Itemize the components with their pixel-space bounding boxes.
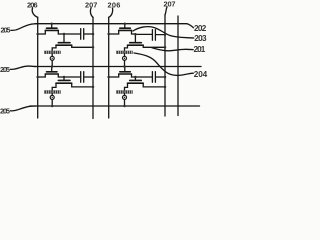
svg-text:207: 207 (164, 0, 176, 9)
transistor T2 row1 col2 (128, 43, 144, 46)
leader 205 row3 (11, 106, 36, 111)
transistor T1 row2 col1 (45, 72, 58, 74)
wire scan line 205 row3 (30, 105, 200, 107)
leader 204 (134, 53, 193, 75)
node dots row1 scan (50, 22, 53, 25)
junction dots (36, 22, 166, 107)
wire line 207 col2 (164, 15, 166, 116)
svg-text:205: 205 (1, 25, 11, 34)
electro-optical element 204 row1 col1 (44, 51, 60, 54)
electro-optical element 204 row1 col2 (116, 51, 132, 54)
terminal circle row2 col2 (124, 94, 126, 106)
transistor T2 row2 col2 (128, 80, 144, 83)
wire scan line 205 row1 (35, 23, 187, 25)
leader 203 (133, 27, 194, 38)
terminal circle row1 col1 (51, 54, 53, 67)
capacitor C row1 col2 (135, 30, 165, 41)
node dots row2 (36, 76, 39, 79)
capacitor C row1 col1 (64, 29, 93, 40)
svg-text:206: 206 (27, 0, 38, 9)
svg-text:202: 202 (194, 24, 207, 33)
leader 205 row2 (11, 66, 37, 69)
wire scan line 205 row2 (34, 66, 201, 68)
node dots row1 (36, 33, 39, 36)
terminal circle row1 col2 (124, 54, 126, 67)
transistor T2 row2 col1 (56, 80, 72, 83)
transistor T1 row1 col2 (119, 28, 132, 30)
wire data line 206 col1 (37, 17, 39, 118)
leader 201 (152, 48, 193, 51)
svg-text:206: 206 (108, 0, 121, 9)
leader 207 col2 (165, 7, 167, 15)
terminal circle row2 col1 (51, 94, 53, 106)
svg-text:203: 203 (194, 34, 207, 43)
transistor T1 row1 col1 (45, 28, 58, 30)
leader 206 col2 (109, 8, 113, 17)
transistor T1 row2 col2 (119, 72, 132, 74)
transistor T2 row1 col1 (56, 43, 72, 46)
wire data line 206 col2 (108, 17, 110, 118)
node dots row3 scan (51, 105, 54, 108)
leader 207 col1 (90, 8, 93, 17)
electro-optical element 204 row2 col1 (44, 90, 60, 93)
svg-text:201: 201 (194, 45, 206, 54)
electro-optical element 204 row2 col2 (116, 90, 132, 93)
svg-text:205: 205 (0, 107, 10, 116)
capacitor C row2 col1 (64, 72, 93, 83)
node dots row2 scan (51, 65, 54, 68)
svg-text:204: 204 (194, 70, 208, 79)
leader 205 row1 (11, 24, 37, 31)
svg-text:207: 207 (85, 0, 97, 9)
wire data line col3 (177, 16, 179, 116)
capacitor C row2 col2 (135, 72, 165, 83)
wire line 207 col1 (92, 17, 94, 118)
svg-text:205: 205 (0, 65, 10, 74)
leader 202 (187, 24, 194, 28)
leader 206 col1 (32, 8, 38, 17)
